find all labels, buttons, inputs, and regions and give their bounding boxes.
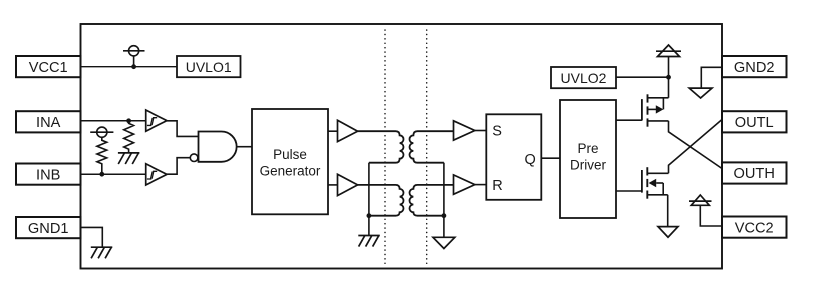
- block Pulse Generator: [252, 109, 328, 214]
- buffer bottom channel: [338, 174, 358, 195]
- NAND gate: [190, 132, 236, 162]
- supply symbol VCC2 pin: [689, 195, 722, 226]
- block UVLO2: [551, 67, 616, 88]
- SR latch U2: [486, 114, 541, 200]
- pin GND2: [722, 56, 787, 77]
- pin INA: [16, 111, 81, 132]
- isolation barrier dashed line left: [384, 30, 386, 265]
- pin OUTH: [722, 162, 787, 183]
- wire Pulse Generator to bottom buffer: [328, 184, 338, 186]
- wire secondary common leg: [443, 163, 445, 238]
- ground primary side: [358, 236, 380, 247]
- wire NAND to Pulse Generator: [237, 146, 252, 148]
- resistor INA pulldown: [124, 121, 134, 153]
- svg-text:Pulse: Pulse: [273, 147, 307, 162]
- wire latch Q to Pre Driver: [541, 157, 560, 159]
- wire S buffer to latch: [475, 130, 487, 132]
- svg-text:OUTL: OUTL: [735, 115, 774, 131]
- pin OUTL: [722, 111, 787, 132]
- isolation barrier dashed line right: [426, 30, 428, 265]
- transformer T2 primary: [358, 185, 404, 216]
- node primary junction: [367, 213, 372, 218]
- resistor INB pullup: [97, 137, 107, 173]
- node INA junction: [126, 118, 131, 123]
- transistor Q1 high-side PMOS: [642, 94, 669, 126]
- INB pullup terminal symbol: [90, 127, 113, 137]
- pin INB: [16, 164, 81, 185]
- svg-text:VCC1: VCC1: [29, 60, 68, 76]
- buffer S channel: [454, 121, 475, 140]
- wire schmitt INA to NAND input A: [167, 121, 199, 137]
- svg-text:INA: INA: [36, 115, 61, 131]
- svg-text:R: R: [492, 178, 502, 194]
- wire GND1 pin to ground: [81, 227, 103, 247]
- schmitt trigger INA: [146, 110, 167, 131]
- wire INA to schmitt buffer: [81, 120, 146, 122]
- svg-text:OUTH: OUTH: [734, 166, 775, 182]
- svg-text:UVLO2: UVLO2: [561, 70, 607, 86]
- wire Q2 source to ground: [667, 195, 669, 227]
- svg-text:Q: Q: [525, 152, 536, 168]
- wire GND2 pin: [701, 67, 722, 88]
- node VCC1 internal junction: [131, 64, 136, 69]
- svg-text:VCC2: VCC2: [735, 220, 774, 236]
- node INB junction: [99, 172, 104, 177]
- block UVLO1: [177, 56, 241, 77]
- svg-text:INB: INB: [36, 167, 60, 183]
- svg-text:GND2: GND2: [734, 60, 775, 76]
- schmitt trigger INB: [146, 164, 167, 185]
- transformer T2 secondary: [409, 185, 453, 216]
- transformer T1 secondary: [409, 131, 453, 163]
- wire primary common leg: [368, 163, 370, 236]
- buffer top channel: [338, 120, 358, 141]
- wire Pre Driver to Q2 gate: [616, 190, 642, 192]
- svg-text:UVLO1: UVLO1: [186, 59, 232, 75]
- transformer T1 primary: [358, 131, 404, 163]
- svg-text:Pre: Pre: [577, 141, 598, 156]
- ground Q2 source triangle: [658, 227, 678, 238]
- pin VCC2: [722, 217, 787, 238]
- wire VCC1 to UVLO1: [81, 66, 178, 68]
- wire Q2 drain to OUTL (cross): [669, 120, 723, 174]
- buffer R channel: [454, 175, 475, 194]
- wire schmitt INB to NAND input B bubble: [167, 158, 190, 175]
- block Pre Driver: [560, 100, 616, 218]
- pin VCC1: [16, 56, 81, 77]
- ground GND1 of INA resistor: [118, 153, 139, 164]
- node VCC2 rail junction: [666, 75, 671, 80]
- svg-text:Driver: Driver: [570, 158, 607, 173]
- ground secondary side triangle: [433, 237, 455, 248]
- pin GND1: [16, 217, 81, 238]
- wire Pulse Generator to top buffer: [328, 130, 338, 132]
- ground GND2 triangle: [689, 88, 712, 98]
- ground GND1: [91, 247, 113, 258]
- wire Q1 source to OUTH (cross): [669, 121, 723, 169]
- svg-text:S: S: [492, 123, 502, 139]
- wire INB to schmitt buffer: [81, 173, 146, 175]
- wire Pre Driver to Q1 gate: [616, 119, 642, 121]
- svg-text:Generator: Generator: [260, 164, 321, 179]
- wire UVLO2 to VCC2 rail: [616, 76, 669, 78]
- transistor Q2 low-side NMOS: [642, 167, 669, 199]
- node secondary junction: [442, 213, 447, 218]
- supply symbol VCC2 rail top: [656, 45, 681, 98]
- IC boundary box: [81, 24, 723, 269]
- svg-text:GND1: GND1: [28, 221, 69, 237]
- VCC1 internal terminal symbol: [123, 46, 145, 67]
- wire R buffer to latch: [475, 184, 487, 186]
